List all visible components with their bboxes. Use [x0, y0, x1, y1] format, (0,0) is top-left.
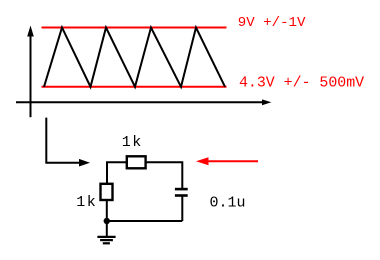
red level line 9V (top) [42, 27, 227, 29]
svg-text:1k: 1k [122, 134, 143, 151]
svg-text:0.1u: 0.1u [210, 195, 246, 212]
svg-text:1k: 1k [76, 194, 97, 211]
wire: top-right from R1 to capacitor [146, 162, 183, 189]
red arrow pointing at RC node [196, 157, 258, 165]
triangle waveform [44, 28, 225, 87]
ground [97, 221, 115, 243]
vertical axis (V) with arrowhead [27, 26, 34, 118]
capacitor C1 0.1u plates [175, 189, 188, 195]
resistor R2 1k (vertical box) [101, 184, 113, 200]
wire: R2 to ground node [106, 200, 108, 221]
resistor R1 1k (horizontal box) [127, 156, 146, 168]
red level line 4.3V (bottom) [42, 86, 227, 88]
wire: capacitor to bottom rail [181, 196, 183, 222]
horizontal axis (t) with arrowhead [16, 99, 271, 105]
svg-text:9V +/-1V: 9V +/-1V [238, 15, 306, 31]
wire: top-left from corner to resistor R1 [107, 162, 127, 184]
bent arrow from axis to circuit input [46, 118, 90, 167]
svg-text:4.3V +/- 500mV: 4.3V +/- 500mV [239, 75, 364, 91]
junction dot (node) [104, 218, 110, 224]
wire: bottom rail [107, 220, 183, 222]
